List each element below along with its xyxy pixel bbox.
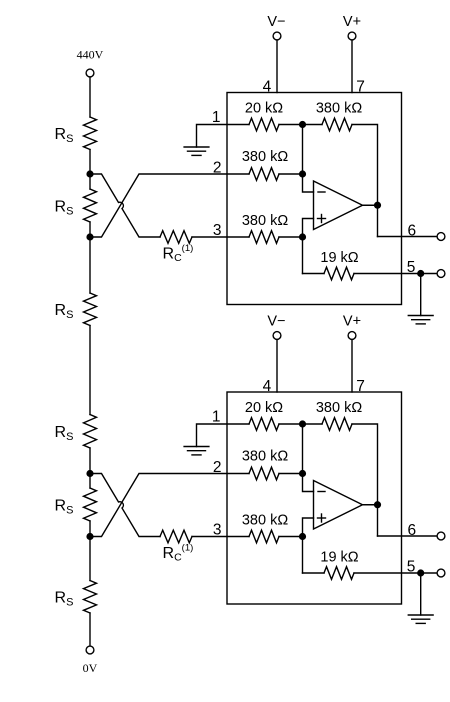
svg-text:V+: V+: [343, 314, 361, 330]
svg-text:2: 2: [213, 459, 222, 476]
node junction tap2 (dot): [86, 233, 93, 240]
svg-text:3: 3: [213, 222, 222, 239]
node output (dot U1): [374, 202, 381, 209]
wire crossover tap to pin 3 (with hop): [90, 474, 160, 537]
op-amp U1 plus sign: [318, 215, 326, 223]
node feedback junction (dot U1): [299, 121, 306, 128]
svg-text:4: 4: [263, 378, 272, 395]
wire pin 5 (U1): [354, 273, 437, 275]
svg-text:380 kΩ: 380 kΩ: [242, 149, 288, 165]
resistor RC1: [160, 231, 192, 244]
svg-text:3: 3: [213, 522, 222, 539]
op-amp U1 minus sign: [318, 191, 325, 193]
terminal pin 6 (U2): [437, 532, 445, 540]
svg-text:1: 1: [212, 109, 221, 126]
wire to noninverting input (U2): [303, 518, 314, 573]
op-amp IC U1 package box: [227, 93, 402, 305]
wire pin 7 (U1): [351, 40, 353, 93]
op-amp IC U2 package box: [227, 392, 402, 604]
resistor 19k (U2): [324, 567, 354, 580]
wire feedback to output (U1): [352, 125, 378, 237]
wire: [303, 572, 325, 574]
svg-text:RS: RS: [55, 302, 74, 321]
resistor 20k (U2): [249, 418, 279, 431]
ground (pin 5 U2): [408, 615, 433, 623]
svg-text:RS: RS: [55, 199, 74, 218]
node noninverting input (dot U1): [299, 233, 306, 240]
wire pin 1 (U2): [197, 424, 250, 447]
wire pin 6 (U2): [378, 535, 438, 537]
wire: [89, 326, 91, 415]
svg-text:20 kΩ: 20 kΩ: [245, 101, 283, 117]
resistor 380k pin2 (U1): [249, 168, 279, 181]
svg-text:2: 2: [213, 159, 222, 176]
wire: [279, 124, 322, 126]
node pin5 ground junction (dot U2): [417, 569, 424, 576]
wire: [89, 521, 91, 581]
svg-text:RC(1): RC(1): [163, 243, 194, 264]
op-amp U1: [314, 181, 363, 230]
wire pin5 to ground (U2): [420, 573, 422, 615]
op-amp U2: [314, 481, 363, 530]
resistor 19k (U1): [324, 267, 354, 280]
wire: [89, 150, 91, 190]
svg-text:19 kΩ: 19 kΩ: [320, 550, 358, 566]
ground (pin 1 U2): [184, 447, 209, 455]
resistor RC2: [160, 530, 192, 543]
wire pin 6 (U1): [378, 236, 438, 238]
svg-text:5: 5: [407, 259, 416, 276]
wire: [279, 423, 322, 425]
resistor 380k pin3 (U2): [249, 530, 279, 543]
node inverting input (dot U1): [299, 170, 306, 177]
wire crossover tap to pin 2: [90, 174, 249, 237]
wire crossover tap to pin 2: [90, 474, 249, 537]
svg-text:RS: RS: [55, 126, 74, 145]
wire crossover tap to pin 3 (with hop): [90, 174, 160, 237]
svg-text:RS: RS: [55, 498, 74, 517]
wire: [279, 173, 303, 175]
node pin5 ground junction (dot U1): [417, 270, 424, 277]
svg-text:0V: 0V: [83, 661, 98, 675]
svg-text:380 kΩ: 380 kΩ: [242, 449, 288, 465]
terminal V- (U1): [273, 32, 281, 40]
svg-text:5: 5: [407, 559, 416, 576]
terminal V- (U2): [273, 332, 281, 340]
wire: [279, 536, 303, 538]
terminal pin 5 (U1): [437, 270, 445, 278]
resistor RS6: [84, 581, 97, 614]
wire pin5 to ground (U1): [420, 274, 422, 316]
node inverting input (dot U2): [299, 470, 306, 477]
wire: [279, 473, 303, 475]
svg-text:RS: RS: [55, 590, 74, 609]
wire: [89, 77, 91, 117]
wire: [279, 236, 303, 238]
node noninverting input (dot U2): [299, 533, 306, 540]
wire pin 5 (U2): [354, 572, 437, 574]
terminal 440V: [86, 69, 94, 77]
wire pin 7 (U2): [351, 340, 353, 393]
wire: [192, 236, 249, 238]
resistor RS1: [84, 117, 97, 150]
resistor RS2: [84, 189, 97, 222]
svg-text:4: 4: [263, 78, 272, 95]
svg-text:380 kΩ: 380 kΩ: [242, 513, 288, 529]
terminal V+ (U1): [348, 32, 356, 40]
resistor RS4: [84, 415, 97, 449]
ground (pin 1 U1): [184, 147, 209, 155]
terminal V+ (U2): [348, 332, 356, 340]
wire to inverting input (U1): [303, 125, 314, 193]
svg-text:RC(1): RC(1): [163, 543, 194, 564]
resistor 380k feedback (U1): [322, 118, 352, 131]
svg-text:19 kΩ: 19 kΩ: [320, 250, 358, 266]
wire: [192, 536, 249, 538]
resistor 380k pin2 (U2): [249, 467, 279, 480]
node output (dot U2): [374, 501, 381, 508]
wire feedback to output (U2): [352, 424, 378, 536]
svg-text:RS: RS: [55, 424, 74, 443]
svg-text:1: 1: [212, 408, 221, 425]
wire op-amp output (U1): [363, 204, 378, 206]
svg-text:6: 6: [408, 522, 417, 539]
terminal pin 6 (U1): [437, 233, 445, 241]
node junction tap4 (dot): [86, 533, 93, 540]
svg-text:20 kΩ: 20 kΩ: [245, 400, 283, 416]
svg-text:V−: V−: [267, 314, 285, 330]
resistor RS3: [84, 293, 97, 326]
wire: [303, 273, 325, 275]
wire pin 1 (U1): [197, 125, 250, 148]
node junction tap3 (dot): [86, 470, 93, 477]
terminal pin 5 (U2): [437, 569, 445, 577]
svg-text:380 kΩ: 380 kΩ: [316, 101, 362, 117]
svg-text:380 kΩ: 380 kΩ: [316, 400, 362, 416]
node feedback junction (dot U2): [299, 420, 306, 427]
ground (pin 5 U1): [408, 316, 433, 324]
resistor 380k pin3 (U1): [249, 231, 279, 244]
svg-text:7: 7: [356, 378, 365, 395]
wire to inverting input (U2): [303, 424, 314, 492]
wire op-amp output (U2): [363, 504, 378, 506]
resistor 20k (U1): [249, 118, 279, 131]
wire: [89, 222, 91, 293]
terminal 0V: [86, 646, 94, 654]
op-amp U2 plus sign: [318, 514, 326, 522]
wire: [89, 613, 91, 646]
op-amp U2 minus sign: [318, 491, 325, 493]
wire: [89, 448, 91, 488]
svg-text:V−: V−: [267, 14, 285, 30]
node junction tap1 (dot): [86, 170, 93, 177]
resistor 380k feedback (U2): [322, 418, 352, 431]
resistor RS5: [84, 488, 97, 521]
wire to noninverting input (U1): [303, 219, 314, 274]
svg-text:V+: V+: [343, 14, 361, 30]
svg-text:380 kΩ: 380 kΩ: [242, 213, 288, 229]
wire pin 4 (U2): [276, 340, 278, 393]
svg-text:6: 6: [408, 222, 417, 239]
svg-text:7: 7: [356, 78, 365, 95]
svg-text:440V: 440V: [77, 48, 104, 62]
wire pin 4 (U1): [276, 40, 278, 93]
